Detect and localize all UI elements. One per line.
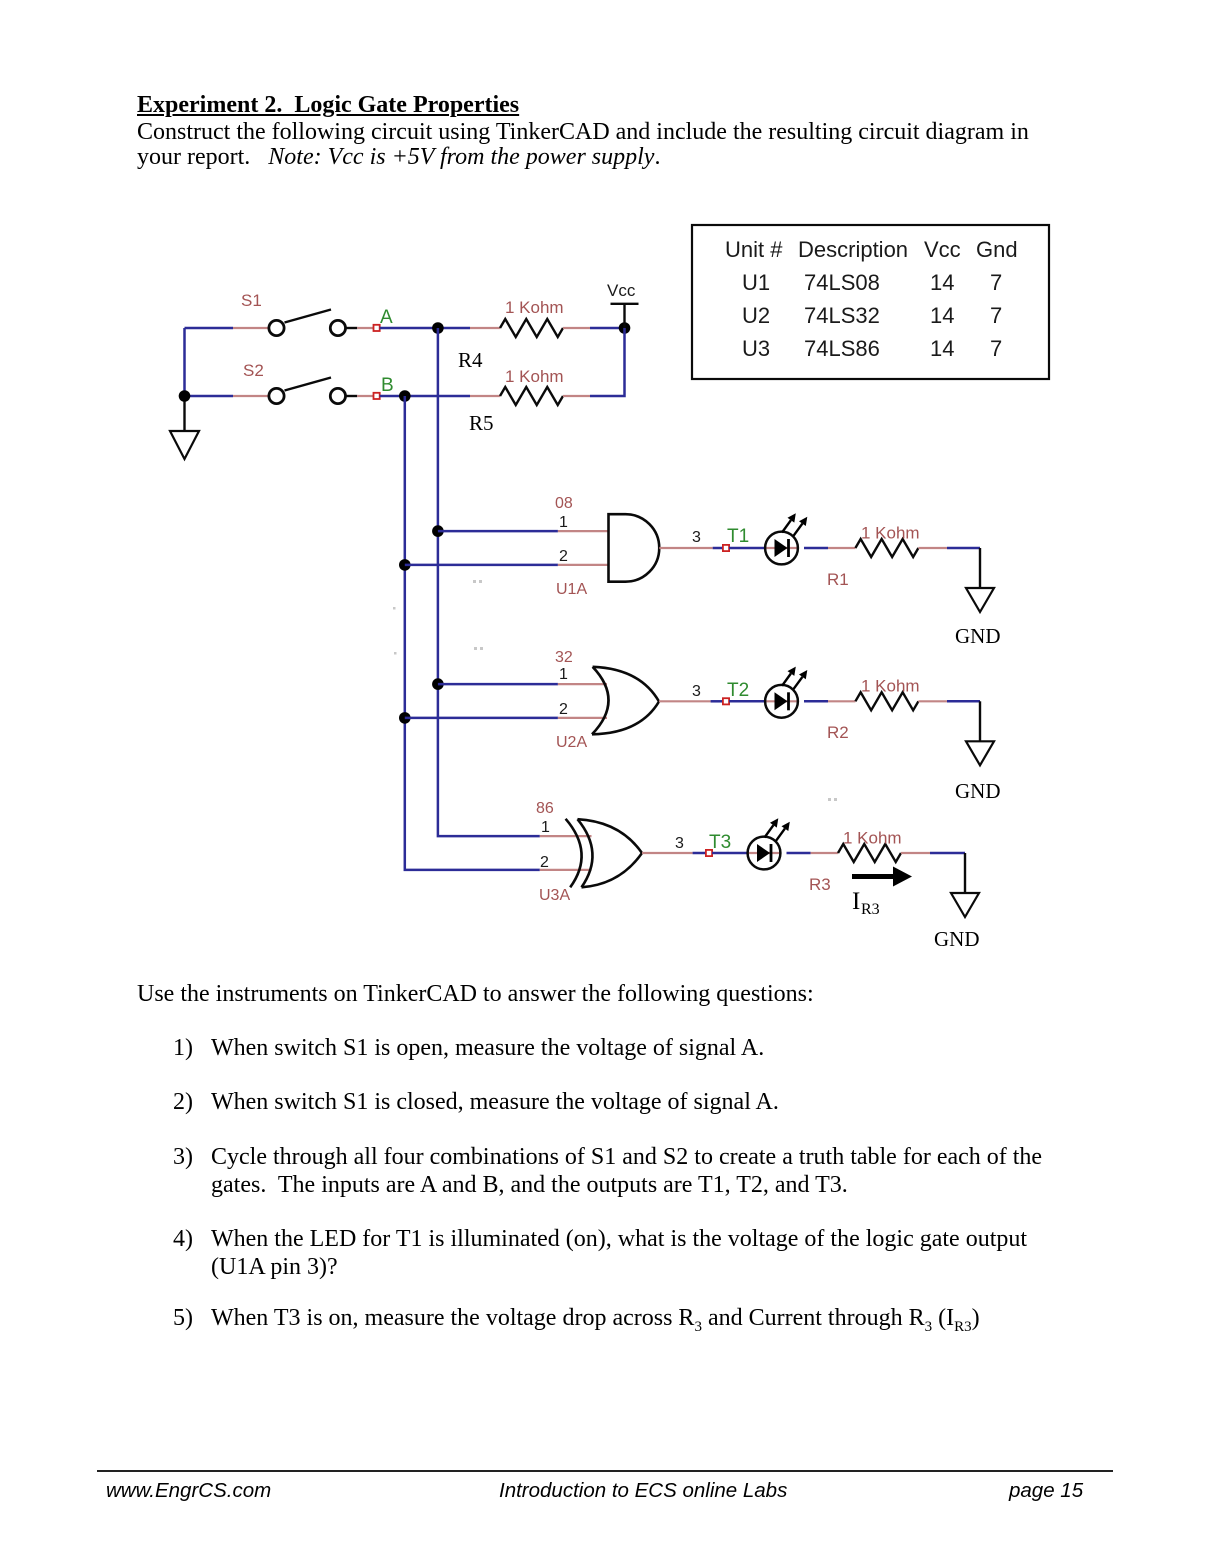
footer rule [97, 1470, 1113, 1472]
svg-text:1 Kohm: 1 Kohm [843, 829, 902, 848]
node B terminal square [374, 393, 380, 399]
svg-text:GND: GND [934, 927, 980, 951]
paragraph line 2 [137, 145, 660, 169]
svg-text:R1: R1 [827, 570, 849, 589]
LED D2 [765, 667, 807, 718]
footer left [106, 1481, 271, 1502]
wire: R3 left lead (pink) [811, 852, 838, 854]
AND gate U1A (74LS08) [609, 514, 660, 582]
wire: XOR output to T3 square (blue) [693, 852, 706, 855]
wire: OR output to T2 square (blue) [711, 700, 723, 703]
question 3 [173, 1145, 193, 1169]
wire: XOR pin2 lead (pink) [540, 869, 592, 871]
question 4 [173, 1227, 193, 1251]
svg-text:14: 14 [930, 303, 954, 328]
OR gate U2A (74LS32) [592, 667, 659, 735]
junction dot OR pin1 [432, 678, 444, 690]
svg-text:U3A: U3A [539, 887, 570, 904]
svg-text:3: 3 [692, 683, 701, 700]
ground symbol GND3 [951, 853, 979, 917]
wire: AND pin1 blue [438, 530, 558, 533]
wire: R4 left lead (pink) [470, 327, 500, 329]
svg-text:U3: U3 [742, 336, 770, 361]
svg-text:74LS32: 74LS32 [804, 303, 880, 328]
svg-text:R5: R5 [469, 411, 494, 435]
wire: S1 left pin lead (pink) [233, 327, 269, 329]
LED D3 [748, 818, 790, 869]
wire: S2 left pin lead (pink) [233, 395, 269, 397]
ground symbol GND2 [966, 701, 994, 765]
svg-text:Description: Description [798, 237, 908, 262]
wire: OR pin2 lead (pink) [558, 717, 607, 719]
wire: left vertical bus from S1 row to S2 row [183, 328, 186, 396]
label IR3 [852, 888, 880, 918]
resistor R2 (1 Kohm) [855, 692, 918, 710]
svg-text:74LS08: 74LS08 [804, 270, 880, 295]
paragraph line 1 [137, 120, 1029, 144]
wire: R5 to Vcc riser (blue) [590, 328, 625, 396]
svg-text:1 Kohm: 1 Kohm [505, 298, 564, 317]
junction dot at Vcc node [619, 322, 631, 334]
svg-text:GND: GND [955, 779, 1001, 803]
wire: bus B vertical (signal B down to gates) [405, 396, 540, 870]
wire: AND output to T1 square (blue) [713, 547, 723, 550]
resistor R4 (1 Kohm) [500, 319, 563, 337]
switch S1 [269, 310, 357, 336]
wire: R4 to Vcc node (blue) [590, 327, 625, 330]
svg-text:1: 1 [559, 666, 568, 683]
svg-text:1: 1 [559, 514, 568, 531]
wire: OR pin2 blue [405, 717, 558, 720]
wire: LED to R1 (blue) [804, 547, 828, 550]
wire: AND output lead (pink) [659, 547, 712, 549]
svg-text:14: 14 [930, 270, 954, 295]
wire: bus A vertical (signal A down to gates) [438, 328, 540, 836]
svg-text:Vcc: Vcc [607, 281, 636, 300]
wire: S2 row lead-in blue [185, 395, 234, 398]
switch S2 [269, 378, 357, 404]
wire: R2 to GND corner (blue) [947, 700, 980, 703]
footer right [1009, 1481, 1083, 1502]
wire: R1 left lead (pink) [828, 547, 855, 549]
question 5 [173, 1306, 193, 1330]
svg-text:2: 2 [540, 854, 549, 871]
svg-text:74LS86: 74LS86 [804, 336, 880, 361]
wire: R2 right lead (pink) [918, 700, 947, 702]
svg-text:Vcc: Vcc [924, 237, 961, 262]
node T1 terminal square [723, 545, 729, 551]
svg-text:T2: T2 [727, 680, 749, 701]
junction dot AND pin1 [432, 525, 444, 537]
svg-text:2: 2 [559, 548, 568, 565]
svg-text:U2: U2 [742, 303, 770, 328]
LED D1 [765, 513, 807, 564]
junction dot AND pin2 [399, 559, 411, 571]
svg-text:3: 3 [675, 835, 684, 852]
svg-text:U2A: U2A [556, 734, 587, 751]
wire: XOR pin1 lead (pink) [540, 835, 592, 837]
wire: OR pin1 blue [438, 683, 558, 686]
wire: S1 row lead-in blue [185, 327, 234, 330]
wire: R5 right lead (pink) [563, 395, 590, 397]
resistor R3 (1 Kohm) [838, 844, 901, 862]
svg-text:GND: GND [955, 624, 1001, 648]
resistor R5 (1 Kohm) [500, 387, 563, 405]
wire: LED to R3 (blue) [787, 852, 811, 855]
svg-text:U1: U1 [742, 270, 770, 295]
ground symbol at left bus [170, 401, 199, 459]
svg-text:1 Kohm: 1 Kohm [861, 677, 920, 696]
junction dot at node B bus [399, 390, 411, 402]
question 1 [173, 1036, 193, 1060]
svg-text:1 Kohm: 1 Kohm [505, 367, 564, 386]
power symbol Vcc [611, 304, 639, 328]
footer center [499, 1481, 787, 1502]
wire: R2 left lead (pink) [828, 700, 855, 702]
questions intro [137, 982, 814, 1006]
svg-text:S2: S2 [243, 361, 264, 380]
svg-text:1 Kohm: 1 Kohm [861, 524, 920, 543]
svg-text:2: 2 [559, 701, 568, 718]
svg-text:7: 7 [990, 270, 1002, 295]
svg-text:R4: R4 [458, 348, 483, 372]
ground symbol GND1 [966, 548, 994, 612]
svg-text:08: 08 [555, 495, 573, 512]
junction dot OR pin2 [399, 712, 411, 724]
node T3 terminal square [706, 850, 712, 856]
svg-text:86: 86 [536, 800, 554, 817]
svg-text:32: 32 [555, 649, 573, 666]
svg-text:7: 7 [990, 336, 1002, 361]
wire: LED to R2 (blue) [804, 700, 828, 703]
wire: S2 right pin lead (pink) to node B [357, 395, 374, 397]
resistor R1 (1 Kohm) [855, 539, 918, 557]
node T2 terminal square [723, 698, 729, 704]
wire: S1 right pin lead (pink) to node A [357, 327, 374, 329]
junction dot S2/ground [179, 390, 191, 402]
heading: Experiment 2. Logic Gate Properties [137, 93, 519, 117]
wire: R3 to GND corner (blue) [930, 852, 965, 855]
svg-text:Unit #: Unit # [725, 237, 783, 262]
wire: R3 right lead (pink) [901, 852, 930, 854]
current arrow IR3 [852, 867, 912, 887]
wire: AND pin2 blue [405, 564, 558, 567]
svg-text:T3: T3 [709, 832, 731, 853]
wire: OR pin1 lead (pink) [558, 683, 607, 685]
svg-text:T1: T1 [727, 526, 749, 547]
wire: node A to R4 (blue through junction) [380, 327, 470, 330]
wire: AND pin1 lead (pink) [558, 530, 608, 532]
wire: XOR output lead (pink) [642, 852, 693, 854]
wire: T1 square to LED (blue) [729, 547, 765, 550]
wire: R4 right lead (pink) [563, 327, 590, 329]
wire: R1 to GND corner (blue) [947, 547, 980, 550]
wire: AND pin2 lead (pink) [558, 564, 608, 566]
svg-text:14: 14 [930, 336, 954, 361]
svg-text:B: B [381, 375, 394, 396]
wire: R5 left lead (pink) [470, 395, 500, 397]
svg-text:7: 7 [990, 303, 1002, 328]
wire: T2 square to LED (blue) [729, 700, 765, 703]
svg-text:A: A [380, 307, 393, 328]
svg-text:1: 1 [541, 819, 550, 836]
svg-text:R3: R3 [861, 901, 880, 918]
question 2 [173, 1090, 193, 1114]
svg-text:3: 3 [692, 529, 701, 546]
IC pin table [692, 225, 1049, 379]
wire: node B to R5 (blue through junction) [380, 395, 470, 398]
wire: T3 square to LED (blue) [712, 852, 748, 855]
svg-text:I: I [852, 888, 860, 915]
node A terminal square [374, 325, 380, 331]
svg-text:R3: R3 [809, 875, 831, 894]
wire: OR output lead (pink) [659, 700, 711, 702]
svg-text:R2: R2 [827, 723, 849, 742]
artifact dots [393, 580, 837, 801]
junction dot at node A bus [432, 322, 444, 334]
wire: R1 right lead (pink) [918, 547, 947, 549]
svg-text:S1: S1 [241, 291, 262, 310]
XOR gate U3A (74LS86) [566, 819, 642, 888]
svg-text:U1A: U1A [556, 581, 587, 598]
svg-text:Gnd: Gnd [976, 237, 1018, 262]
